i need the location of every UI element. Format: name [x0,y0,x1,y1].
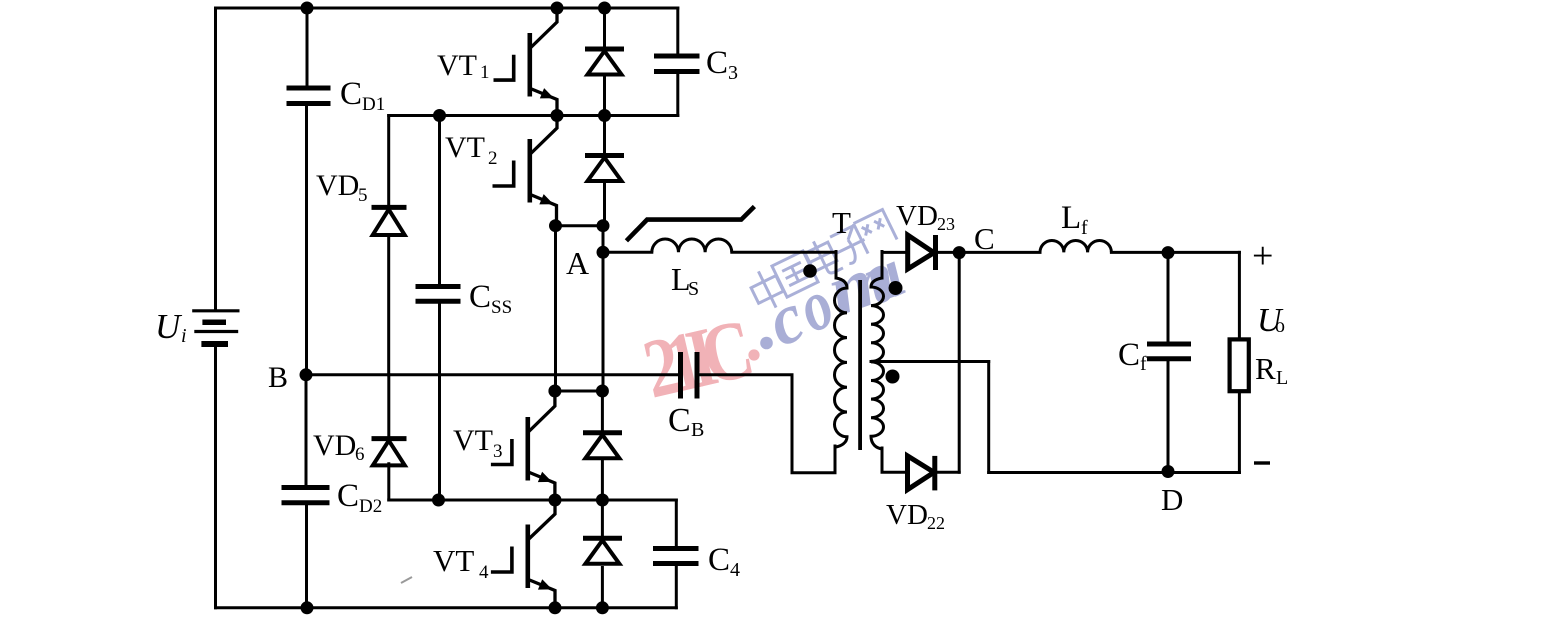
svg-text:f: f [1140,353,1147,375]
transformer secondary upper polarity dot [889,281,903,295]
watermark chinese char dian [802,235,843,280]
node D dot [1162,465,1175,478]
node dot A rail left [549,219,562,232]
transformer secondary upper winding [871,278,884,361]
svg-text:4: 4 [730,559,740,581]
inductor Ls [652,239,732,252]
capacitor C4 [653,549,699,564]
svg-text:B: B [691,419,704,441]
watermark blue letter u [851,232,915,320]
svg-text:A: A [566,245,589,281]
IGBT VT3 [491,391,555,500]
node dot rail2 / VT1 emitter [551,109,564,122]
svg-text:C: C [469,279,491,315]
wire A rail (VT2 emitter to D2 anode) [556,224,604,227]
svg-text:L: L [1061,200,1081,236]
svg-text:i: i [181,325,187,347]
wire D rail [989,471,1240,474]
svg-text:L: L [1276,367,1288,389]
svg-text:23: 23 [937,214,955,234]
wire VT3-emitter rail (node between VT3/VT4) [389,499,677,502]
capacitor CB (series in B rail) [681,352,698,399]
wire A column left (down to VT3 collector) [554,226,557,391]
node dot Lf/Cf junction [1162,246,1175,259]
diode D1 (antiparallel of VT1) [585,49,624,75]
node dot VT3 collector [548,385,561,398]
svg-text:6: 6 [355,444,365,465]
svg-text:1: 1 [480,62,490,83]
IGBT VT2 [493,116,558,226]
watermark chinese char zi [826,224,872,269]
node dot top rail / D1 cathode [598,2,611,15]
svg-text:C: C [340,76,362,112]
svg-text:VT: VT [433,543,474,578]
diode D2 (antiparallel of VT2) [585,156,624,182]
wire right output column [1238,252,1241,472]
transformer secondary lower polarity dot [886,370,900,384]
node B [300,368,313,381]
svg-text:C: C [974,221,995,256]
capacitor CD2 [282,488,330,503]
wire center tap down to D rail [987,362,990,473]
node dot rail4 / D4 cathode [596,494,609,507]
svg-text:C: C [1118,337,1140,373]
svg-text:D2: D2 [359,496,382,517]
wire C3 column [676,8,679,116]
wire Cf column [1167,252,1170,471]
capacitor CD1 [287,88,331,104]
svg-text:C: C [706,45,728,81]
wire Lf to output plus corner [1111,251,1239,254]
svg-text:o: o [1275,315,1285,337]
wire battery column lower [214,346,217,608]
battery Ui [192,311,239,344]
wire battery column upper [214,8,217,310]
diode VD5 [372,207,407,235]
node dot D3 top [596,385,609,398]
wire CD2 column [305,375,309,608]
wire D2 column [603,116,606,226]
wire center tap [871,360,989,363]
svg-text:D: D [1161,482,1183,517]
wire Ls to transformer primary top [732,252,836,279]
resistor RL [1230,339,1249,391]
diode D3 (antiparallel of VT3) [583,433,622,459]
stray pen mark [401,577,412,583]
WATERMARK [635,209,915,416]
wire VT1-emitter rail (node between VT1/VT2) [389,114,678,117]
label minus [1254,461,1270,464]
watermark pink period of 21IC. [748,349,759,360]
transformer secondary lower winding [871,362,884,449]
watermark blue letter o [787,262,844,347]
watermark chinese char wang [853,209,897,253]
wire VD6 column [387,375,390,500]
transformer core [858,280,862,450]
wire node C to Lf [959,251,1040,254]
svg-text:VT: VT [437,49,477,82]
svg-text:3: 3 [728,62,738,84]
svg-text:C: C [708,542,730,578]
transformer primary polarity dot [803,264,817,278]
IGBT VT1 [494,8,558,116]
diode D4 (antiparallel of VT4) [583,538,622,564]
svg-text:S: S [688,278,699,300]
node dot top rail / CD1 [301,2,314,15]
svg-text:R: R [1255,351,1276,386]
svg-text:22: 22 [927,513,945,533]
node dot bottom rail / CD2 [301,601,314,614]
svg-text:B: B [268,361,288,394]
wire D3 column [601,391,604,500]
svg-text:4: 4 [479,562,489,583]
svg-text:C: C [668,402,691,439]
wire node C column down [958,253,961,473]
svg-text:VD: VD [896,200,938,232]
svg-text:VD: VD [886,499,928,531]
watermark blue period of .com [760,337,773,350]
wire D1 column [603,8,606,116]
switch blade over Ls [626,207,754,241]
diode VD6 [372,439,407,466]
wire secondary bottom to VD22 anode [882,448,906,472]
wire node A to Ls [603,251,652,254]
svg-text:5: 5 [358,185,368,206]
wire VD22 cathode to C column [937,471,960,474]
svg-text:VT: VT [445,131,485,164]
wire CD1 column [305,8,309,375]
wire Css column [438,116,441,501]
node dot A rail right [597,219,610,232]
capacitor C3 [654,56,700,72]
wire C4 column [675,500,678,608]
node dot bottom rail / D4 anode [596,601,609,614]
svg-text:C: C [337,478,359,514]
wire VT3 collector rail [555,390,603,393]
wire node B rail to CB [306,373,679,376]
wire CB to transformer primary bottom [699,375,836,473]
watermark blue letter c [756,277,815,362]
node C dot [953,246,966,259]
watermark pink 21IC [635,302,757,416]
svg-text:SS: SS [491,297,512,318]
svg-text:VD: VD [316,169,359,202]
node dot top rail / VT1 collector [551,2,564,15]
wire transformer secondary top to VD23 [882,252,906,279]
wire top rail [216,7,678,10]
diode VD23 [908,235,936,270]
node dot rail2 / Css top [433,109,446,122]
watermark chinese char zhong [746,265,788,313]
node dot bottom rail / VT4 emitter [549,601,562,614]
svg-text:VT: VT [453,424,493,457]
node dot rail4 / Css bottom [432,494,445,507]
svg-text:D1: D1 [362,94,385,115]
capacitor Css [416,287,461,302]
diode VD22 [908,456,935,491]
wire VD5 column [387,116,390,375]
svg-text:2: 2 [488,148,498,169]
capacitor Cf [1147,344,1191,359]
wire bottom rail [216,606,677,609]
wire D4 column [601,500,604,608]
svg-text:3: 3 [493,441,503,462]
svg-text:U: U [155,307,183,346]
svg-text:+: + [1252,235,1273,277]
node A [597,246,610,259]
node dot rail2 / D2 cathode [598,109,611,122]
watermark chinese char guo [772,251,818,297]
inductor Lf [1040,240,1111,252]
svg-text:T: T [832,205,851,240]
watermark blue letter m [817,235,905,332]
svg-text:f: f [1081,217,1088,239]
node dot rail4 / VT3 emitter [549,494,562,507]
svg-text:VD: VD [313,429,356,462]
IGBT VT4 [491,500,555,607]
wire A column right (down to D3 cathode) [602,226,605,391]
transformer primary winding [835,278,848,447]
wire VD23 to node C [939,251,960,254]
